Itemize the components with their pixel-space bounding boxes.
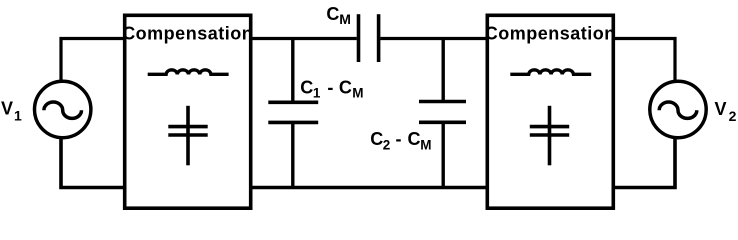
svg-text:2: 2: [383, 138, 391, 153]
svg-text:M: M: [339, 11, 351, 27]
svg-text:V: V: [715, 99, 727, 119]
voltage source V2: [650, 81, 706, 137]
svg-text:1: 1: [313, 86, 321, 101]
wire bottom (box to box): [249, 186, 489, 190]
capacitor (left box): [168, 106, 207, 166]
wire branch C2 bottom: [442, 122, 445, 187]
svg-text:2: 2: [729, 108, 737, 124]
wire V2 top: [612, 39, 676, 81]
wire top mid-right (CM to box): [380, 37, 489, 40]
voltage source V1: [35, 81, 91, 137]
wire V1 bottom: [61, 139, 127, 188]
svg-text:C: C: [408, 129, 421, 149]
svg-text:C: C: [300, 77, 313, 97]
compensation box right: [487, 15, 613, 208]
svg-text:C: C: [326, 4, 339, 24]
svg-text:1: 1: [14, 108, 22, 124]
svg-text:-: -: [327, 77, 333, 97]
svg-text:M: M: [352, 86, 363, 101]
capacitor C2-CM: [419, 102, 466, 123]
svg-text:Compensation: Compensation: [122, 24, 253, 44]
wire branch C2 top: [442, 39, 445, 102]
svg-text:C: C: [370, 129, 383, 149]
label C1 - CM: [300, 77, 363, 100]
svg-text:C: C: [339, 77, 352, 97]
svg-text:-: -: [396, 129, 402, 149]
label V1: [1, 98, 22, 123]
capacitor C1-CM: [268, 102, 318, 122]
compensation box left: [125, 15, 251, 208]
inductor (right box): [510, 70, 591, 74]
wire V2 bottom: [612, 139, 676, 188]
label CM: [326, 4, 350, 27]
wire branch C1 bottom: [291, 122, 294, 187]
svg-text:V: V: [1, 98, 13, 118]
wire branch C1 top: [291, 39, 294, 103]
label V2: [715, 99, 737, 124]
wire V1 top: [61, 39, 127, 81]
capacitor CM: [359, 14, 379, 62]
capacitor (right box): [530, 106, 569, 166]
inductor (left box): [148, 70, 229, 74]
svg-text:Compensation: Compensation: [485, 24, 616, 44]
wire top left-mid (box to CM): [249, 37, 357, 40]
label C2 - CM: [370, 129, 431, 152]
svg-text:M: M: [420, 138, 431, 153]
